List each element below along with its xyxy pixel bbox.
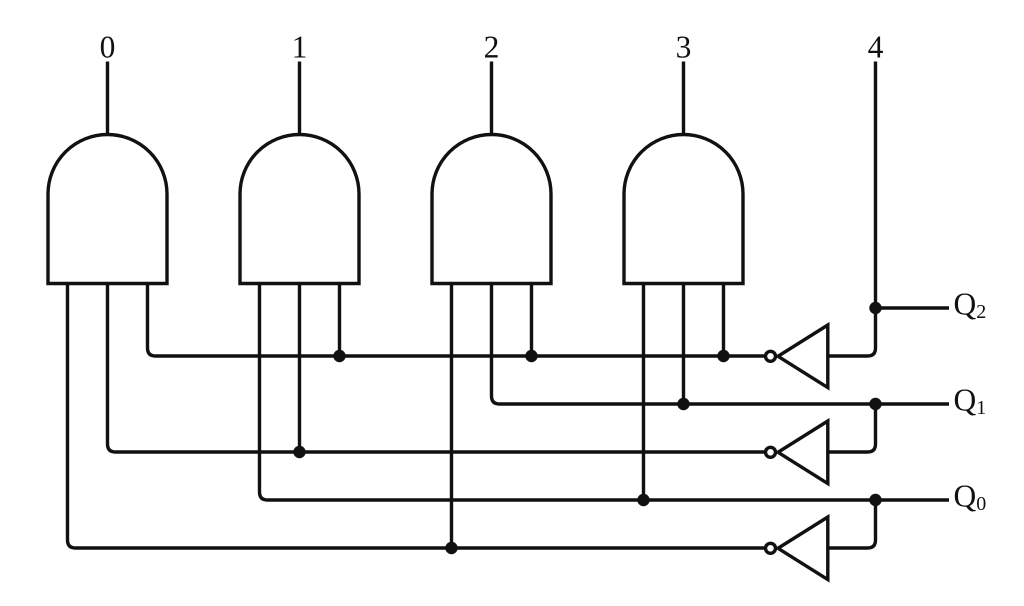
wire inverter U3 input from Q0 (830, 500, 876, 548)
wire G0 input right to row notQ2 (148, 284, 765, 357)
wire G3 input left to row Q0 (642, 284, 645, 501)
wire G0 input left to row notQ0 (68, 284, 765, 549)
wire G3 input right to row notQ2 (722, 284, 725, 357)
wire G1 input middle to row notQ1 (298, 284, 301, 453)
junction dot row notQ2 / G1 (333, 350, 345, 362)
AND gate G3 (624, 135, 743, 284)
wire G2 input right to row notQ2 (530, 284, 533, 357)
wire output gate 0 (106, 62, 109, 136)
wire output gate 2 (490, 62, 493, 136)
inverter U1 triangle (778, 325, 828, 388)
AND gate G1 (240, 135, 359, 284)
junction dot row notQ2 / G3 (717, 350, 729, 362)
wire row Q2 (876, 306, 950, 309)
wire output gate 1 (298, 62, 301, 136)
junction dot row notQ2 / G2 (525, 350, 537, 362)
wire G1 input left to row Q0 (260, 284, 950, 501)
wire G2 input middle to row Q1 (492, 284, 950, 405)
junction dot row notQ0 / G2 (445, 542, 457, 554)
svg-text:4: 4 (868, 30, 884, 65)
svg-text:Q1: Q1 (954, 382, 987, 419)
inverter U2 triangle (778, 421, 828, 484)
wire G0 input middle to row notQ1 (108, 284, 765, 453)
wire output gate 3 (682, 62, 685, 136)
AND gate G0 (48, 135, 167, 284)
junction dot row Q1 / inverter feed (869, 398, 881, 410)
wire column 4 from label to inverter U1 input (830, 62, 876, 357)
wire G3 input middle to row Q1 (682, 284, 685, 405)
AND gate G2 (432, 135, 551, 284)
wire G1 input right to row notQ2 (338, 284, 341, 357)
inverter U3 triangle (778, 517, 828, 580)
wire inverter U2 input from Q1 (830, 404, 876, 452)
inverter U1 bubble (766, 351, 776, 361)
svg-text:2: 2 (484, 30, 500, 65)
junction dot row Q1 / G3 (677, 398, 689, 410)
inverter U3 bubble (766, 543, 776, 553)
svg-text:3: 3 (676, 30, 692, 65)
svg-text:1: 1 (292, 30, 308, 65)
junction dot row Q0 / G3 (637, 494, 649, 506)
junction dot row notQ1 / G1 (293, 446, 305, 458)
svg-text:Q2: Q2 (954, 286, 987, 323)
svg-text:0: 0 (100, 30, 116, 65)
inverter U2 bubble (766, 447, 776, 457)
junction dot row Q2 / column 4 (869, 302, 881, 314)
svg-text:Q0: Q0 (954, 478, 987, 515)
wire G2 input left to row notQ0 (450, 284, 453, 549)
junction dot row Q0 / inverter feed (869, 494, 881, 506)
